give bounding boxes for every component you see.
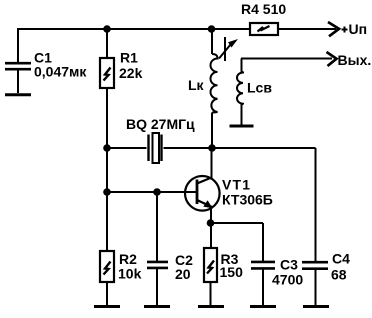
svg-text:Uп: Uп xyxy=(349,21,368,37)
ground (C2) xyxy=(144,305,170,308)
wire emitter to C3 xyxy=(211,222,264,224)
svg-text:150: 150 xyxy=(220,264,244,280)
tuning core bar xyxy=(224,37,226,61)
ground (R3) xyxy=(198,305,224,308)
wire top rail left xyxy=(17,28,250,30)
svg-text:68: 68 xyxy=(331,267,347,283)
inductor Lk xyxy=(210,29,217,148)
svg-text:КТ306Б: КТ306Б xyxy=(222,192,273,208)
node base C2 xyxy=(153,188,161,196)
node crystal left xyxy=(103,144,111,152)
ground (C1) xyxy=(5,93,31,96)
inductor Lsv xyxy=(237,59,243,126)
capacitor C1 xyxy=(5,29,31,93)
wire base row xyxy=(107,191,197,193)
node +Up arrow xyxy=(328,22,339,36)
wire R1 top lead xyxy=(106,29,108,58)
crystal BQ wire left xyxy=(107,147,147,149)
capacitor C2 xyxy=(147,192,168,305)
node Vykh arrow xyxy=(327,52,337,66)
resistor R3 xyxy=(204,248,217,305)
resistor R4 xyxy=(250,23,278,35)
wire top rail right xyxy=(278,28,336,30)
svg-text:C4: C4 xyxy=(332,251,350,267)
tuning arrow xyxy=(219,44,231,59)
node crystal right xyxy=(208,144,216,152)
svg-text:Вых.: Вых. xyxy=(338,52,372,68)
capacitor C3 xyxy=(251,223,275,305)
svg-text:VT1: VT1 xyxy=(222,177,251,193)
svg-text:C3: C3 xyxy=(280,257,298,273)
crystal BQ xyxy=(149,133,162,163)
transistor VT1 xyxy=(185,148,220,249)
svg-text:0,047мк: 0,047мк xyxy=(34,64,87,80)
crystal wire right xyxy=(164,147,316,149)
wire output to Vykh xyxy=(241,58,332,60)
ground (R2) xyxy=(94,305,120,308)
node top R1 xyxy=(103,25,111,33)
svg-text:Lсв: Lсв xyxy=(247,80,272,96)
svg-text:BQ 27МГц: BQ 27МГц xyxy=(126,116,195,132)
ground (C3) xyxy=(250,305,276,308)
ground (Lsv) xyxy=(230,125,254,128)
svg-text:20: 20 xyxy=(175,266,191,282)
svg-text:R4 510: R4 510 xyxy=(241,1,286,17)
label +Up xyxy=(342,27,348,33)
ground (C4) xyxy=(303,305,329,308)
wire R1 bottom to base row xyxy=(106,88,108,251)
capacitor C4 xyxy=(302,148,328,305)
node emitter xyxy=(207,219,215,227)
svg-text:10k: 10k xyxy=(118,266,142,282)
svg-text:22k: 22k xyxy=(119,65,143,81)
svg-text:R1: R1 xyxy=(120,50,138,66)
svg-text:Lк: Lк xyxy=(188,77,205,93)
node base left xyxy=(103,188,111,196)
svg-text:4700: 4700 xyxy=(272,272,303,288)
node top Lk xyxy=(208,25,216,33)
resistor R2 xyxy=(100,251,114,305)
resistor R1 xyxy=(100,58,114,88)
